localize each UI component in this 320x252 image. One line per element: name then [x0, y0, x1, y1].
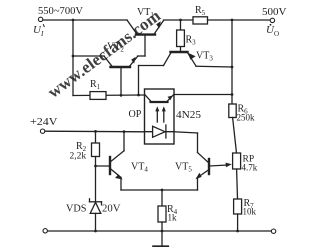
- node output terminal circle: [270, 18, 274, 22]
- wire VT3 collector drop: [138, 66, 140, 96]
- resistor R3: [177, 30, 185, 47]
- wire LED cathode to VT5 collector: [174, 132, 198, 133]
- wire light arrows inside 4N25: [155, 106, 166, 122]
- svg-text:4N25: 4N25: [176, 110, 201, 121]
- wire VT2 emitter to VT1 base: [138, 55, 146, 57]
- potentiometer RP: [233, 153, 241, 169]
- wire +24V rail: [45, 130, 145, 133]
- svg-text:OP: OP: [129, 109, 142, 120]
- svg-text:2,2k: 2,2k: [70, 152, 87, 162]
- node junction R3 top: [179, 19, 182, 22]
- op-amp optocoupler box 4N25: [145, 89, 175, 144]
- wire bottom ground rail: [48, 230, 272, 232]
- svg-text:VDS: VDS: [66, 204, 87, 215]
- transistor VT3: [164, 47, 197, 67]
- svg-text:1k: 1k: [168, 213, 178, 223]
- resistor R6: [229, 104, 236, 118]
- wire phototransistor emitter to column: [174, 94, 232, 96]
- transistor VT2: [104, 56, 138, 95]
- transistor VT5: [195, 133, 209, 190]
- wire VT2 collector feed: [73, 55, 104, 57]
- transistor VT4: [110, 130, 125, 190]
- wire RP to R7: [236, 169, 239, 199]
- resistor R4: [158, 206, 166, 222]
- wire R1 row: [73, 94, 145, 97]
- wire R7 to ground rail: [237, 214, 239, 231]
- diode LED inside 4N25: [145, 125, 175, 138]
- node junction VT3 collector drop on R1 wire: [137, 94, 140, 97]
- zener VDS: [90, 199, 102, 231]
- wire top rail from input to VT1: [43, 19, 127, 21]
- wire input dropper vertical x73: [72, 20, 74, 96]
- wire R4 bottom lead: [161, 222, 163, 231]
- node junction VT2 base on R1 wire: [120, 94, 123, 97]
- svg-text:O: O: [274, 30, 279, 38]
- resistor R1: [90, 92, 106, 100]
- resistor R2: [92, 143, 100, 157]
- wire R5 to output: [208, 19, 271, 21]
- wire R6 column vertical: [231, 20, 233, 104]
- svg-text:10k: 10k: [243, 207, 257, 217]
- transistor phototransistor inside 4N25: [145, 95, 174, 102]
- ground: [153, 231, 168, 246]
- transistor VT1: [127, 20, 164, 56]
- svg-text:500V: 500V: [262, 7, 287, 18]
- resistor R5: [193, 17, 208, 24]
- wire R6 to RP: [233, 118, 237, 154]
- wire VT3 collector horizontal: [139, 65, 164, 67]
- node ground terminal right: [271, 229, 275, 233]
- resistor R7: [234, 199, 242, 214]
- wire tail to R4: [161, 190, 163, 206]
- svg-text:4.7k: 4.7k: [242, 163, 258, 173]
- wire R2 to zener: [95, 157, 97, 202]
- svg-text:250k: 250k: [237, 113, 256, 123]
- svg-text:550~700V: 550~700V: [38, 6, 83, 17]
- wire shared emitter rail: [121, 189, 198, 191]
- wire VT5 base to RP wiper arrow: [210, 163, 232, 168]
- wire VT3 emitter to R6 column: [196, 65, 232, 68]
- wire R3 top lead: [180, 20, 182, 30]
- svg-text:20V: 20V: [102, 204, 121, 215]
- wire VT4 base: [96, 165, 111, 167]
- wire R2 top lead: [95, 131, 97, 143]
- node +24V terminal: [40, 129, 44, 133]
- node ground terminal left: [43, 229, 47, 233]
- node junction R6 column top: [231, 19, 234, 22]
- wire VT1 emitter to R5: [164, 19, 194, 21]
- svg-text:+24V: +24V: [30, 117, 58, 128]
- node input terminal circle: [38, 17, 42, 21]
